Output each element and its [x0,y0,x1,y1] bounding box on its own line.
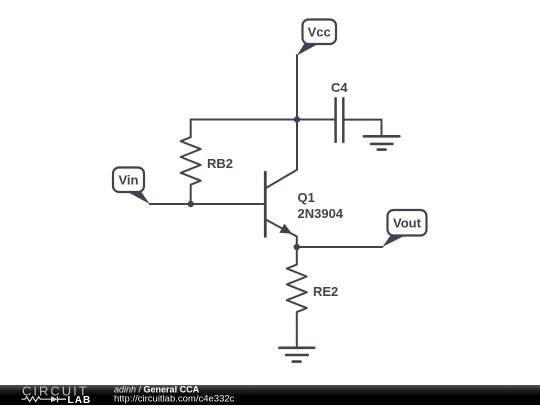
wire: junction down to Q1 collector [296,120,298,170]
net label Vcc [297,20,336,56]
ground (bottom, below RE2) [279,348,314,362]
wire: top rail (RB2 top to C4 left plate) [191,119,336,121]
CircuitLab logo resistor squiggle [22,396,52,401]
footer bar [0,385,540,406]
capacitor C4 [336,98,344,142]
svg-text:Vin: Vin [119,173,139,188]
node: base junction at RB2 bottom [188,201,194,207]
CircuitLab logo diode [51,396,58,402]
svg-text:Q1: Q1 [298,190,315,205]
wire: base wire Vin to Q1 [150,203,266,205]
net label Vin [113,168,150,205]
svg-text:LAB: LAB [68,394,92,405]
node: emitter output junction [294,244,300,250]
wire: output node down to RE2 [296,247,298,265]
svg-text:Vout: Vout [393,216,422,231]
wire: C4 right plate to ground [343,120,381,137]
svg-text:RB2: RB2 [207,156,233,171]
wire: emitter to output node [296,237,298,248]
wire: RE2 bottom to ground [296,312,298,348]
svg-text:C4: C4 [331,80,348,95]
wire: output node to Vout tail [297,246,383,248]
resistor RE2 [287,265,307,313]
node: top rail junction [294,116,300,122]
resistor RB2 [181,120,201,205]
svg-text:RE2: RE2 [313,284,338,299]
net label Vout [382,210,426,247]
svg-text:2N3904: 2N3904 [298,206,344,221]
svg-text:Vcc: Vcc [308,25,331,40]
transistor Q1 (NPN 2N3904) [265,170,297,237]
svg-text:http://circuitlab.com/c4e332c: http://circuitlab.com/c4e332c [114,393,235,404]
wire: Vcc tail to top rail [296,55,298,120]
ground (top right, after C4) [364,136,400,149]
